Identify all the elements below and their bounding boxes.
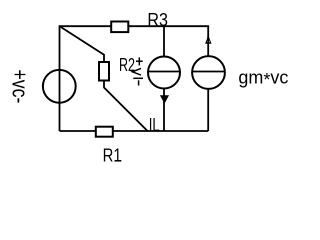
wire diagonal from top corner to R2: [60, 26, 104, 62]
resistor R2 body: [99, 62, 109, 81]
polarity underline mark: [133, 77, 143, 79]
svg-text:+vc-: +vc-: [7, 69, 32, 103]
resistor R3 body: [111, 22, 128, 33]
voltage source V1 vc: [43, 70, 76, 103]
svg-text:R3: R3: [147, 10, 168, 30]
wire diagonal from R2 to node IL: [104, 81, 148, 131]
foot of digit 1 in R1: [115, 160, 122, 162]
wire right rail vertical: [207, 26, 209, 131]
filled arrow down on U1 bottom lead: [160, 95, 169, 104]
polarity v mark: [132, 68, 141, 75]
polarity plus mark: [136, 57, 143, 65]
svg-text:IL: IL: [149, 115, 160, 135]
svg-text:gm*vc: gm*vc: [238, 68, 288, 91]
chord of current source U1: [148, 71, 180, 73]
open arrow up on right rail: [205, 35, 211, 43]
svg-text:R1: R1: [103, 146, 122, 166]
polarity minus-tick mark: [138, 80, 140, 85]
wire left rail vertical: [59, 25, 61, 131]
chord of current source U2: [192, 71, 225, 73]
wire through voltage source: [59, 68, 61, 104]
current source U2 gm*vc right circle: [192, 56, 225, 89]
resistor R1 body: [96, 127, 113, 137]
wire top horizontal: [60, 25, 210, 27]
wire lead of controlled source U1: [163, 26, 165, 131]
wire bottom horizontal: [60, 130, 209, 132]
current source U1 left circle: [148, 57, 180, 89]
